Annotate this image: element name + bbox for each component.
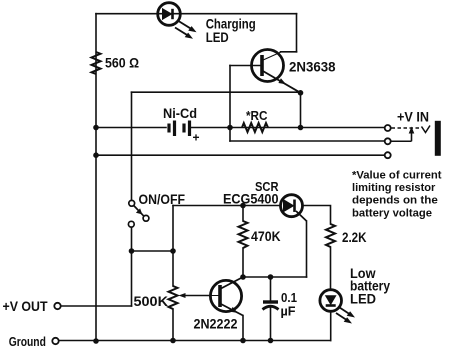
junction dot capacitor ground <box>268 338 274 344</box>
wire gate rail y=277 <box>243 276 307 278</box>
wire Q1 collector stub y=51.8 <box>281 51 297 53</box>
transistor Q2 2N2222 <box>210 277 243 316</box>
resistor *RC horizontal <box>242 123 268 132</box>
switch blade with arrowhead <box>134 206 144 217</box>
svg-text:limiting resistor: limiting resistor <box>352 182 436 194</box>
wire Q1 base lead y=65.5 <box>230 65 260 67</box>
svg-text:2N3638: 2N3638 <box>289 59 336 75</box>
resistor 2.2K <box>326 224 335 247</box>
junction dot capacitor top <box>268 274 274 280</box>
battery Ni-Cd <box>169 121 190 137</box>
junction dot left-battery <box>93 125 99 131</box>
svg-text:*RC: *RC <box>246 108 268 123</box>
svg-text:+: + <box>193 131 200 145</box>
wire 470K bottom lead to gate rail <box>242 248 244 277</box>
junction dot left-ground <box>93 338 99 344</box>
svg-text:470K: 470K <box>251 229 281 244</box>
wire third rail y=155.2 from left rail to +V IN terminal 3 <box>96 154 385 156</box>
svg-text:LED: LED <box>350 292 376 307</box>
wire battery rail right part <box>192 127 385 129</box>
LED D2 low battery <box>320 290 342 312</box>
svg-text:µF: µF <box>281 304 296 319</box>
LED D1 charging: diode triangle and bar <box>163 9 173 19</box>
terminal +V IN 2 <box>385 138 391 144</box>
wire SCR cathode to 2.2K corner <box>302 206 330 225</box>
junction dot emitter <box>298 90 304 96</box>
junction dot 500K top node <box>170 248 176 254</box>
wire top rail y=14 from left rail to LED and to right corner <box>96 13 297 15</box>
wire ground rail y=340.5 <box>59 340 331 342</box>
capacitor 0.1uF curved bottom plate <box>263 306 279 309</box>
potentiometer 500K wiper arrow <box>179 293 211 298</box>
junction dot 500K ground <box>170 338 176 344</box>
terminal +V IN 3 <box>385 152 391 158</box>
wire SCR anode rail y=205.5 <box>173 205 281 207</box>
junction dot 470K top <box>240 203 246 209</box>
svg-text:+V OUT: +V OUT <box>3 299 49 314</box>
terminal +V IN 1 <box>385 125 391 131</box>
wire emitter rail y=92 from switch drop to emitter junction <box>132 91 301 93</box>
svg-text:ON/OFF: ON/OFF <box>139 192 186 207</box>
wire emitter junction drop x=300.5 <box>300 93 302 128</box>
wire LED bottom lead to ground <box>330 311 332 340</box>
junction dot 470K bottom collector <box>240 274 246 280</box>
junction dot battery-base <box>227 125 233 131</box>
switch ON/OFF <box>128 200 149 227</box>
transistor Q1 emitter arrow <box>278 78 286 84</box>
wire switch drop x=131.5 from y=92 to switch top terminal <box>131 92 133 200</box>
wire Q2 emitter drop x=243 <box>242 316 244 341</box>
wire x=230 Q1 base drop from base to second rail <box>229 66 231 142</box>
wire 470K top lead <box>242 206 244 222</box>
terminal +V OUT <box>54 303 60 309</box>
LED D1 charging: light arrows <box>175 21 197 39</box>
svg-text:500K: 500K <box>134 294 169 309</box>
svg-text:battery voltage: battery voltage <box>352 207 432 219</box>
transistor Q2 emitter arrow <box>230 307 238 313</box>
wire battery rail y=127.5 from left rail to +V IN terminal 1 <box>96 127 166 129</box>
annotation dashed probe line <box>392 127 422 129</box>
wire stub from terminal 2 to voltage arrow <box>391 140 412 142</box>
junction dot switch node <box>129 248 135 254</box>
wire SCR gate drop x=306.5 <box>306 221 308 277</box>
svg-text:2.2K: 2.2K <box>342 230 367 245</box>
svg-text:2N2222: 2N2222 <box>194 317 238 332</box>
wire x=173 riser from SCR rail to 500K <box>172 206 174 287</box>
wire right drop x=296.5 from top rail to Q1 collector stub <box>296 14 298 52</box>
wire capacitor bottom lead <box>270 308 272 341</box>
junction dot left-third rail <box>93 152 99 158</box>
svg-text:LED: LED <box>206 29 229 45</box>
annotation V check mark <box>422 126 431 133</box>
junction dot RC right <box>298 125 304 131</box>
svg-text:+V IN: +V IN <box>397 110 429 125</box>
terminal Ground <box>52 338 58 344</box>
capacitor 0.1uF top plate <box>263 300 278 303</box>
wire switch bottom to node x=131.5 <box>131 227 133 306</box>
LED D1 charging: circle <box>158 3 181 26</box>
wire left rail x=96 from top to ground <box>95 14 97 341</box>
svg-text:Ground: Ground <box>9 335 46 349</box>
wire 2.2K bottom lead to LED <box>330 247 332 290</box>
wire node link y=251 <box>132 250 174 252</box>
transistor Q1 2N3638 <box>252 50 301 93</box>
SCR ECG5400 <box>281 195 307 221</box>
wire capacitor top lead x=270.5 <box>270 277 272 301</box>
wire second rail y=141 to +V IN terminal 2 <box>230 140 385 142</box>
svg-text:ECG5400: ECG5400 <box>223 191 279 206</box>
LED D2 light arrows <box>336 307 355 324</box>
wire +V OUT lead y=305.5 <box>61 305 132 307</box>
svg-text:Ni-Cd: Ni-Cd <box>163 105 197 121</box>
battery pack bar (thick) <box>435 121 441 156</box>
svg-text:560 Ω: 560 Ω <box>105 55 139 71</box>
svg-text:depends on the: depends on the <box>352 195 438 207</box>
junction dot emitter ground <box>240 338 246 344</box>
svg-text:*Value of current: *Value of current <box>352 169 442 181</box>
resistor 560 ohm <box>92 52 101 74</box>
wire 500K bottom lead to ground <box>172 309 174 341</box>
annotation voltage arrow up <box>409 127 415 142</box>
resistor 470K <box>239 221 248 248</box>
potentiometer 500K <box>169 286 178 309</box>
